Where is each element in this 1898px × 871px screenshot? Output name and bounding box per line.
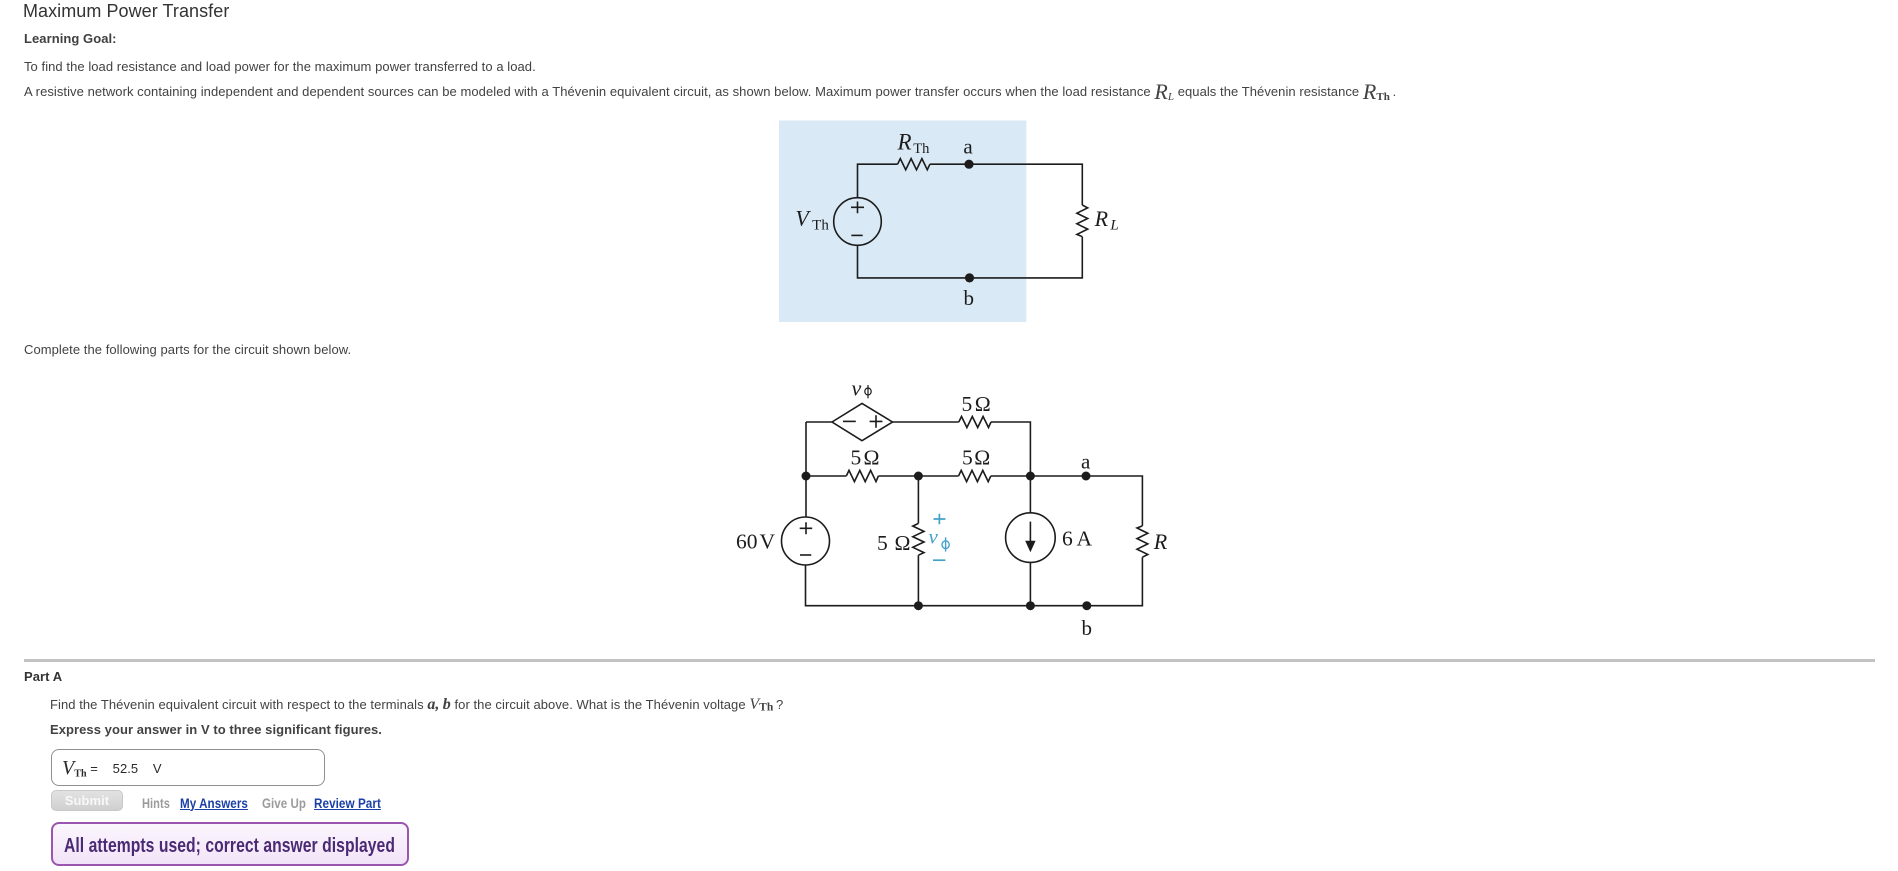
svg-text:v: v (929, 525, 939, 549)
svg-text:L: L (1109, 218, 1118, 234)
svg-text:Ω: Ω (895, 531, 911, 555)
svg-text:V: V (760, 530, 776, 554)
svg-text:Ω: Ω (975, 392, 991, 416)
svg-text:b: b (1082, 616, 1093, 640)
svg-text:5: 5 (962, 446, 973, 470)
svg-text:R: R (897, 129, 912, 154)
svg-text:a: a (963, 135, 973, 159)
svg-text:5: 5 (851, 446, 862, 470)
svg-text:a: a (1081, 450, 1091, 474)
svg-text:Ω: Ω (974, 446, 990, 470)
svg-text:R: R (1153, 529, 1168, 554)
svg-text:A: A (1077, 527, 1093, 551)
svg-text:60: 60 (736, 530, 758, 554)
svg-text:Ω: Ω (864, 446, 880, 470)
svg-text:6: 6 (1062, 527, 1073, 551)
svg-text:b: b (964, 286, 975, 310)
svg-text:R: R (1094, 206, 1109, 231)
svg-text:Th: Th (812, 217, 829, 233)
svg-text:v: v (852, 376, 862, 401)
svg-text:5: 5 (877, 531, 888, 555)
svg-text:Th: Th (913, 141, 930, 157)
svg-text:5: 5 (962, 392, 973, 416)
